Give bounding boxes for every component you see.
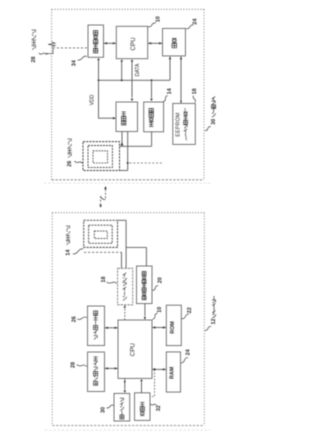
box: modem circuit (hendpuku): [88, 25, 104, 57]
scan echo line below card frame: [44, 182, 211, 184]
svg-text:DATA: DATA: [135, 63, 141, 76]
box: ROM: [166, 305, 181, 345]
svg-text:34: 34: [72, 60, 78, 66]
box: power circuit: [163, 28, 186, 56]
box: printer unit: [114, 393, 130, 421]
bidirectional arrow: CPU - power: [148, 42, 163, 44]
svg-text:20: 20: [158, 277, 164, 283]
wireless link arrows between figures: [105, 189, 107, 199]
box: CPU (reader): [118, 320, 152, 378]
antenna terminal A: [118, 219, 127, 221]
branch to display box: [150, 369, 155, 396]
wire power box to EEPROM: [180, 57, 182, 103]
svg-text:10: 10: [157, 307, 163, 313]
figure frame: reader/writer outline (bottom figure): [52, 212, 204, 214]
box: control circuit: [116, 102, 138, 132]
wire: CPU to interface (arrow up): [124, 309, 126, 320]
box: lower-left unit: [88, 352, 105, 392]
svg-text:12: 12: [211, 319, 217, 325]
junction + dashed branch: [127, 132, 129, 171]
wire: CPU down to printer box: [124, 378, 126, 389]
loop antenna wires to boxes: [120, 145, 152, 147]
VDD wire: [99, 80, 116, 118]
svg-text:18: 18: [192, 88, 198, 94]
leader for label 28: [39, 53, 46, 54]
EEPROM second line glyphs: [184, 108, 185, 111]
svg-text:26: 26: [71, 316, 77, 322]
box: EEPROM (nonvolatile memory): [173, 103, 196, 144]
bus up into power box: [169, 57, 171, 81]
svg-text:EEPROM: EEPROM: [176, 112, 182, 136]
svg-text:26: 26: [67, 161, 73, 167]
box: RAM: [166, 352, 180, 392]
wire: modem to CPU (arrow down): [144, 304, 146, 317]
svg-text:CPU: CPU: [130, 37, 137, 51]
svg-text:30: 30: [101, 407, 107, 413]
loop antenna coil (card, nested rects): [83, 142, 120, 171]
svg-text:14: 14: [167, 88, 173, 94]
loop antenna (reader, nested rects): [84, 220, 118, 247]
svg-text:18: 18: [101, 277, 107, 283]
wire bus to CPU: [121, 62, 123, 80]
double arrow: upper-left box - CPU: [105, 327, 119, 329]
box: modem circuit (reader): [137, 266, 153, 304]
wire: CPU - RAM with junction: [152, 368, 166, 370]
wire bus to memory box: [151, 80, 153, 98]
antenna stub + leader attach: [47, 48, 53, 54]
box: CPU (card): [116, 26, 147, 58]
svg-text:CPU: CPU: [130, 343, 137, 357]
box: display unit: [135, 393, 151, 421]
svg-text:14: 14: [66, 250, 72, 256]
box: upper-left unit: [88, 306, 105, 346]
svg-text:28: 28: [71, 362, 77, 368]
wire bus to modem: [98, 61, 100, 81]
svg-text:30: 30: [211, 119, 217, 125]
DATA line CPU to control box: [131, 62, 133, 98]
svg-text:28: 28: [31, 57, 37, 63]
antenna terminal B (dashed under coil): [84, 251, 122, 253]
bidirectional arrow: modem - CPU: [104, 42, 117, 44]
svg-text:22: 22: [187, 307, 193, 313]
svg-text:RAM: RAM: [170, 366, 176, 379]
double arrow: CPU - ROM: [152, 327, 166, 329]
svg-text:24: 24: [192, 19, 198, 25]
box: interface circuit: [118, 268, 133, 305]
bus line (horizontal): [99, 79, 171, 81]
wire: antenna to modem box (dashed): [53, 47, 88, 49]
box: memory circuit: [144, 102, 164, 132]
svg-text:32: 32: [156, 405, 162, 411]
wire: display box up to CPU: [141, 382, 143, 393]
svg-text:VDD: VDD: [89, 94, 95, 105]
svg-text:ROM: ROM: [170, 321, 176, 334]
figure frame: IC card outline (top figure): [52, 8, 204, 10]
double arrow: lower-left box - CPU: [105, 367, 119, 369]
svg-text:10: 10: [155, 16, 161, 22]
svg-text:24: 24: [186, 349, 192, 355]
scan echo line below frame: [45, 429, 210, 431]
antenna coil 28: zigzag on card left edge: [48, 42, 55, 47]
